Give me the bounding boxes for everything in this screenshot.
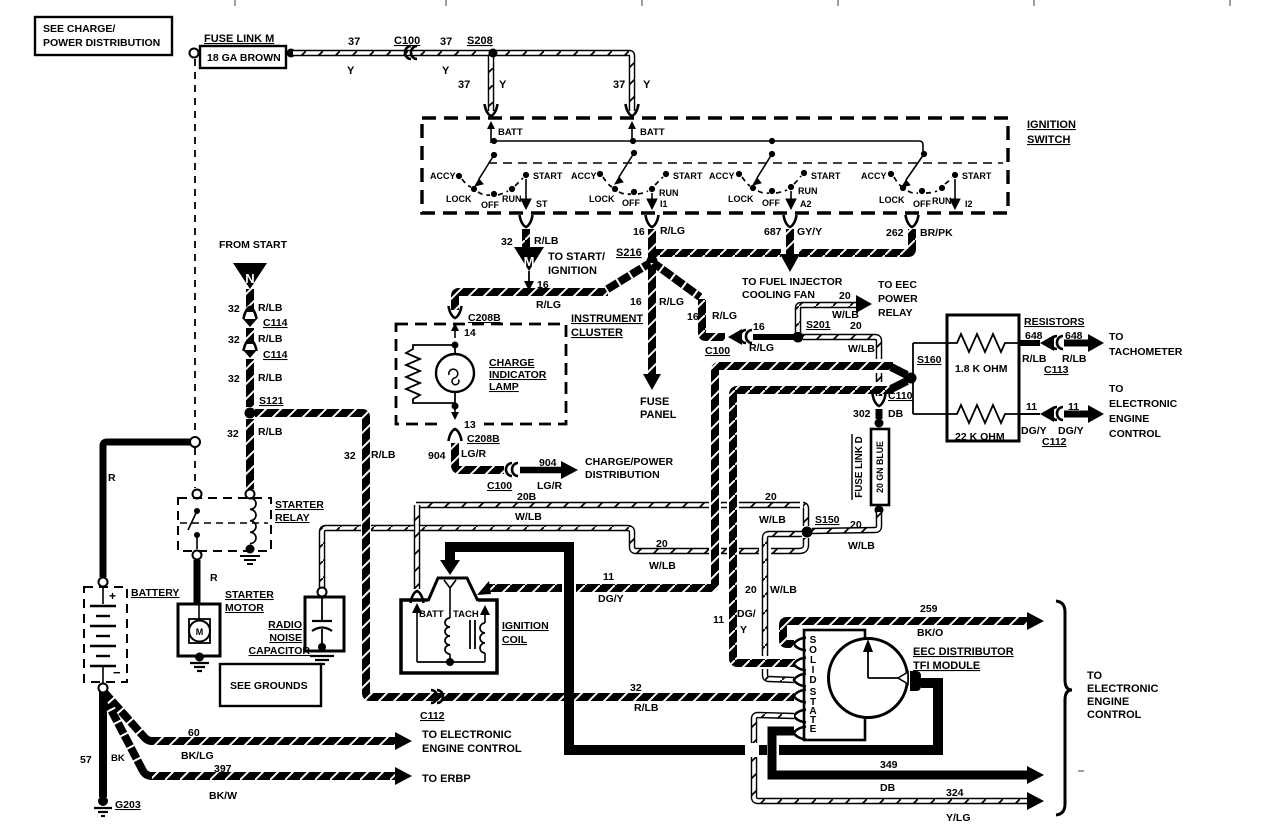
svg-text:ELECTRONIC: ELECTRONIC (1087, 683, 1159, 695)
svg-text:Y: Y (643, 79, 651, 91)
svg-text:M: M (524, 254, 535, 269)
svg-text:OFF: OFF (481, 200, 499, 210)
svg-text:32: 32 (227, 428, 239, 440)
svg-text:ENGINE CONTROL: ENGINE CONTROL (422, 743, 522, 755)
svg-text:37: 37 (458, 79, 470, 91)
svg-text:W/LB: W/LB (649, 560, 676, 572)
svg-text:IGNITION: IGNITION (502, 620, 549, 632)
svg-text:A2: A2 (800, 199, 812, 209)
svg-text:Y: Y (347, 65, 355, 77)
svg-text:RESISTORS: RESISTORS (1024, 316, 1085, 328)
svg-text:S201: S201 (806, 319, 831, 331)
svg-text:COIL: COIL (502, 634, 528, 646)
svg-text:BATT: BATT (419, 609, 444, 620)
svg-text:R/LB: R/LB (258, 426, 283, 438)
svg-text:349: 349 (880, 759, 898, 771)
svg-text:S216: S216 (616, 247, 642, 259)
svg-text:BK: BK (111, 753, 125, 764)
svg-text:TACH: TACH (453, 609, 479, 620)
svg-text:CONTROL: CONTROL (1109, 428, 1161, 440)
svg-text:STARTER: STARTER (275, 499, 324, 511)
svg-text:TO ELECTRONIC: TO ELECTRONIC (422, 729, 512, 741)
svg-text:R/LB: R/LB (634, 702, 659, 714)
svg-text:POWER: POWER (878, 293, 918, 305)
svg-text:PANEL: PANEL (640, 409, 677, 421)
svg-text:FROM START: FROM START (219, 239, 288, 251)
svg-text:S160: S160 (917, 354, 942, 366)
svg-text:RUN: RUN (932, 196, 952, 206)
svg-text:ST: ST (536, 199, 548, 209)
svg-text:R/LB: R/LB (258, 302, 283, 314)
svg-text:START: START (533, 171, 563, 181)
svg-text:Y: Y (740, 624, 747, 636)
svg-text:N: N (245, 271, 254, 286)
svg-text:I1: I1 (660, 199, 668, 209)
svg-text:R/LG: R/LG (712, 310, 737, 322)
svg-text:13: 13 (464, 419, 476, 431)
svg-text:SEE CHARGE/: SEE CHARGE/ (43, 23, 115, 35)
svg-text:R/LB: R/LB (258, 333, 283, 345)
svg-text:S121: S121 (259, 395, 284, 407)
svg-text:CAPACITOR: CAPACITOR (249, 645, 311, 657)
svg-text:RUN: RUN (798, 186, 818, 196)
svg-text:C100: C100 (487, 480, 512, 492)
svg-text:20: 20 (850, 519, 862, 531)
svg-text:M: M (196, 627, 204, 637)
svg-text:BK/O: BK/O (917, 627, 943, 639)
svg-text:18 GA BROWN: 18 GA BROWN (207, 52, 281, 64)
svg-text:OFF: OFF (622, 198, 640, 208)
svg-text:LAMP: LAMP (489, 381, 519, 393)
svg-text:C208B: C208B (468, 312, 501, 324)
svg-text:FUSE: FUSE (640, 396, 669, 408)
svg-text:BK/LG: BK/LG (181, 750, 214, 762)
svg-text:START: START (673, 171, 703, 181)
svg-text:CONTROL: CONTROL (1087, 709, 1142, 721)
svg-text:16: 16 (537, 279, 549, 291)
svg-text:LOCK: LOCK (589, 194, 615, 204)
svg-text:DG/: DG/ (737, 608, 756, 620)
svg-text:INSTRUMENT: INSTRUMENT (571, 313, 643, 325)
svg-text:904: 904 (428, 450, 446, 462)
svg-text:16: 16 (630, 296, 642, 308)
svg-text:20: 20 (839, 290, 851, 302)
svg-text:FUSE LINK M: FUSE LINK M (204, 33, 274, 45)
svg-text:−: − (113, 665, 121, 680)
svg-text:START: START (962, 171, 992, 181)
svg-text:W/LB: W/LB (759, 514, 786, 526)
svg-text:904: 904 (539, 457, 557, 469)
svg-text:C100: C100 (705, 345, 730, 357)
svg-text:W/LB: W/LB (770, 584, 797, 596)
svg-text:C114: C114 (263, 317, 288, 329)
svg-text:COOLING FAN: COOLING FAN (742, 289, 815, 301)
svg-text:TO EEC: TO EEC (878, 279, 917, 291)
svg-text:DG/Y: DG/Y (598, 593, 624, 605)
svg-text:R: R (210, 572, 218, 584)
svg-text:20: 20 (850, 320, 862, 332)
svg-text:ACCY: ACCY (571, 171, 597, 181)
svg-text:FUSE LINK D: FUSE LINK D (854, 436, 865, 498)
svg-text:TO: TO (1087, 670, 1103, 682)
svg-text:ELECTRONIC: ELECTRONIC (1109, 398, 1178, 410)
svg-text:TACHOMETER: TACHOMETER (1109, 346, 1183, 358)
svg-text:R/LG: R/LG (660, 225, 685, 237)
svg-text:INDICATOR: INDICATOR (489, 369, 547, 381)
svg-text:R/LB: R/LB (534, 235, 559, 247)
svg-text:LOCK: LOCK (446, 194, 472, 204)
svg-text:16: 16 (753, 321, 765, 333)
svg-text:TFI MODULE: TFI MODULE (913, 660, 980, 672)
svg-text:R/LG: R/LG (749, 342, 774, 354)
svg-text:S150: S150 (815, 514, 840, 526)
svg-text:R/LG: R/LG (536, 299, 561, 311)
svg-text:TO START/: TO START/ (548, 251, 605, 263)
svg-text:CHARGE: CHARGE (489, 357, 535, 369)
svg-text:57: 57 (80, 754, 92, 766)
svg-text:20 GN BLUE: 20 GN BLUE (875, 441, 885, 493)
svg-text:S208: S208 (467, 35, 493, 47)
svg-text:IGNITION: IGNITION (548, 265, 597, 277)
svg-text:ENGINE: ENGINE (1087, 696, 1129, 708)
svg-text:LG/R: LG/R (537, 480, 562, 492)
svg-text:POWER DISTRIBUTION: POWER DISTRIBUTION (43, 37, 160, 49)
svg-text:11: 11 (713, 614, 724, 626)
svg-text:14: 14 (464, 327, 476, 339)
svg-text:GY/Y: GY/Y (797, 226, 822, 238)
svg-text:START: START (811, 171, 841, 181)
svg-text:W/LB: W/LB (848, 343, 875, 355)
svg-text:11: 11 (1068, 401, 1079, 413)
svg-text:Y: Y (499, 79, 507, 91)
svg-text:60: 60 (188, 727, 200, 739)
svg-text:32: 32 (630, 682, 642, 694)
svg-text:C100: C100 (394, 35, 420, 47)
svg-text:D: D (809, 675, 816, 686)
svg-text:W/LB: W/LB (848, 540, 875, 552)
svg-text:W/LB: W/LB (515, 511, 542, 523)
svg-text:BK/W: BK/W (209, 790, 237, 802)
svg-text:DISTRIBUTION: DISTRIBUTION (585, 469, 660, 481)
svg-text:32: 32 (344, 450, 356, 462)
svg-text:16: 16 (687, 311, 699, 323)
svg-text:262: 262 (886, 227, 904, 239)
svg-text:NOISE: NOISE (269, 632, 302, 644)
svg-text:BATTERY: BATTERY (131, 587, 179, 599)
svg-text:397: 397 (214, 763, 232, 775)
svg-text:TO: TO (1109, 331, 1123, 343)
svg-text:C114: C114 (263, 349, 288, 361)
svg-text:TO: TO (1109, 383, 1123, 395)
svg-text:37: 37 (613, 79, 625, 91)
svg-text:OFF: OFF (913, 199, 931, 209)
svg-text:RELAY: RELAY (878, 307, 913, 319)
svg-text:+: + (109, 589, 116, 603)
svg-text:11: 11 (1026, 401, 1037, 413)
svg-text:R/LB: R/LB (371, 449, 396, 461)
svg-text:RELAY: RELAY (275, 512, 310, 524)
svg-text:32: 32 (228, 334, 240, 346)
svg-text:STARTER: STARTER (225, 589, 274, 601)
svg-text:RADIO: RADIO (268, 619, 302, 631)
svg-text:259: 259 (920, 603, 938, 615)
svg-text:G203: G203 (115, 799, 141, 811)
svg-text:BATT: BATT (640, 127, 665, 138)
svg-text:C112: C112 (1042, 436, 1067, 448)
svg-text:1.8 K OHM: 1.8 K OHM (955, 363, 1008, 375)
svg-text:687: 687 (764, 226, 782, 238)
svg-text:ENGINE: ENGINE (1109, 413, 1149, 425)
svg-text:37: 37 (440, 36, 452, 48)
svg-text:32: 32 (228, 303, 240, 315)
svg-text:OFF: OFF (762, 198, 780, 208)
svg-text:C112: C112 (420, 710, 445, 722)
svg-text:Y: Y (442, 65, 450, 77)
svg-text:ACCY: ACCY (861, 171, 887, 181)
svg-text:CLUSTER: CLUSTER (571, 327, 623, 339)
svg-text:32: 32 (501, 236, 513, 248)
svg-text:C208B: C208B (467, 433, 500, 445)
svg-text:IGNITION: IGNITION (1027, 119, 1076, 131)
svg-text:DB: DB (888, 408, 904, 420)
svg-text:LG/R: LG/R (461, 448, 486, 460)
svg-text:302: 302 (853, 408, 871, 420)
svg-text:I2: I2 (965, 199, 973, 209)
svg-text:MOTOR: MOTOR (225, 602, 264, 614)
svg-text:C110: C110 (888, 390, 913, 402)
svg-text:20: 20 (656, 538, 668, 550)
svg-text:SWITCH: SWITCH (1027, 134, 1070, 146)
svg-text:37: 37 (348, 36, 360, 48)
svg-text:TO ERBP: TO ERBP (422, 773, 471, 785)
svg-text:324: 324 (946, 787, 964, 799)
svg-text:CHARGE/POWER: CHARGE/POWER (585, 456, 674, 468)
svg-text:RUN: RUN (659, 188, 679, 198)
svg-text:20: 20 (765, 491, 777, 503)
svg-text:R/LG: R/LG (659, 296, 684, 308)
svg-text:R/LB: R/LB (258, 372, 283, 384)
svg-text:ACCY: ACCY (709, 171, 735, 181)
svg-text:Y/LG: Y/LG (946, 812, 971, 824)
svg-text:20B: 20B (517, 491, 537, 503)
svg-text:RUN: RUN (502, 194, 522, 204)
svg-text:22 K OHM: 22 K OHM (955, 431, 1005, 443)
svg-text:16: 16 (633, 226, 645, 238)
svg-text:648: 648 (1065, 330, 1083, 342)
svg-text:32: 32 (228, 373, 240, 385)
svg-text:ACCY: ACCY (430, 171, 456, 181)
svg-text:DB: DB (880, 782, 896, 794)
svg-text:R: R (108, 472, 116, 484)
svg-text:11: 11 (603, 571, 614, 583)
svg-text:BR/PK: BR/PK (920, 227, 953, 239)
svg-text:SEE GROUNDS: SEE GROUNDS (230, 680, 308, 692)
svg-text:TO FUEL INJECTOR: TO FUEL INJECTOR (742, 276, 843, 288)
svg-text:EEC DISTRIBUTOR: EEC DISTRIBUTOR (913, 646, 1014, 658)
svg-text:LOCK: LOCK (728, 194, 754, 204)
svg-text:BATT: BATT (498, 127, 523, 138)
svg-text:LOCK: LOCK (879, 195, 905, 205)
svg-text:20: 20 (745, 584, 757, 596)
svg-text:C113: C113 (1044, 364, 1069, 376)
svg-text:648: 648 (1025, 330, 1043, 342)
svg-text:E: E (810, 724, 817, 735)
